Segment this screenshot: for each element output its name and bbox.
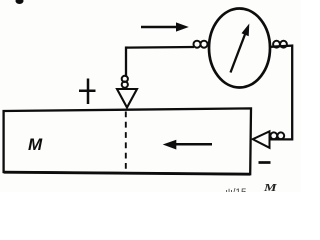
galvanometer needle: [231, 24, 250, 73]
svg-text:M: M: [263, 182, 278, 192]
inductor coil L2 (left slider pigtail, vertical): [122, 76, 128, 88]
inductor coil L1 (galvanometer left lead): [194, 41, 208, 48]
left sliding contact (triangle): [117, 89, 137, 108]
armature current arrow (inside M, pointing left): [163, 140, 212, 150]
machine M body (rectangle): [4, 108, 251, 174]
dashed brush axis line: [125, 112, 127, 173]
wire: right slider to galvanometer (right run): [270, 46, 293, 140]
cropped caption fragment: [226, 188, 247, 199]
inductor coil L4 (galvanometer right lead): [273, 41, 287, 48]
inductor coil L3 (right slider pigtail): [270, 132, 284, 139]
stray ink mark (cropped text above): [16, 0, 24, 4]
wire: slider to galvanometer (top left run): [126, 47, 194, 77]
plus polarity label: [79, 79, 96, 105]
galvanometer G: [209, 9, 270, 88]
cropped caption fragment M: [263, 182, 278, 194]
current direction arrow (top): [141, 22, 189, 31]
minus polarity label: [259, 161, 271, 164]
svg-text:M: M: [28, 135, 43, 154]
label M: [28, 135, 43, 154]
right sliding contact (triangle): [253, 131, 270, 148]
svg-text:ψ/15: ψ/15: [226, 188, 247, 193]
